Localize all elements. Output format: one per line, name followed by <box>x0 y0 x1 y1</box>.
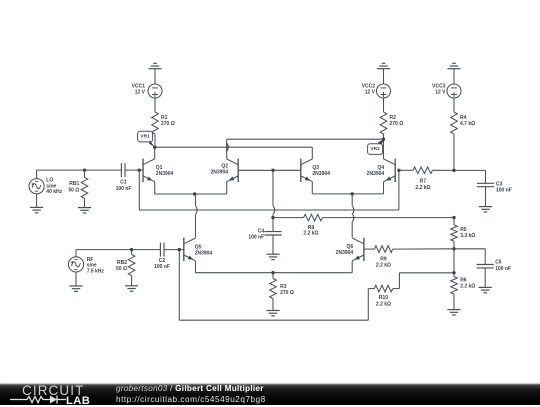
svg-text:R5: R5 <box>460 227 467 233</box>
svg-text:12 V: 12 V <box>365 90 376 96</box>
wire C3-ground <box>485 187 487 207</box>
footer title <box>116 384 264 393</box>
source RF <box>68 250 83 286</box>
label C4 100nF <box>248 228 264 240</box>
ground (C3) <box>479 207 492 212</box>
ground (above VCC1) <box>148 63 161 84</box>
node line B / C4 <box>271 216 274 219</box>
svg-text:VR1: VR1 <box>140 134 150 140</box>
svg-text:12 V: 12 V <box>135 90 146 96</box>
svg-text:C5: C5 <box>495 260 502 266</box>
svg-text:100 nF: 100 nF <box>496 188 512 194</box>
wire line B right <box>322 217 454 219</box>
svg-text:100 nF: 100 nF <box>116 186 132 192</box>
svg-text:270 Ω: 270 Ω <box>390 121 404 127</box>
wire VR1 rail (Q1-Q3 collectors) <box>155 146 313 148</box>
capacitor C5 <box>477 265 494 268</box>
label Q1 <box>156 165 174 177</box>
wire LO top rail <box>37 169 122 171</box>
wire VCC2-R2 <box>383 98 385 112</box>
wire C5-ground <box>484 268 486 288</box>
label C5 100nF <box>495 260 511 272</box>
node Q4 base junction <box>397 169 400 172</box>
svg-text:R2: R2 <box>390 115 397 121</box>
node Q1/Q2 emitters <box>193 192 196 195</box>
label C1 100nF <box>116 180 132 192</box>
wire C4-ground <box>272 235 274 254</box>
node Q5 base junction <box>178 248 181 251</box>
ground (R3) <box>266 311 279 316</box>
svg-text:C3: C3 <box>496 181 503 187</box>
wire base-C4 riser <box>273 170 275 231</box>
label R5 3.3k <box>460 227 475 239</box>
label R2 270 <box>390 115 404 127</box>
svg-text:2N3904: 2N3904 <box>156 171 174 177</box>
node Q1 base junction <box>138 168 141 171</box>
node R5 top <box>452 216 455 219</box>
svg-text:50 Ω: 50 Ω <box>116 266 127 272</box>
CircuitLab logo <box>22 383 84 398</box>
label Q2 <box>210 164 228 176</box>
probe flag VR1 <box>138 131 155 147</box>
wire R10-node <box>393 273 454 289</box>
wire node-C3 <box>454 170 486 183</box>
wire line A (Q1/Q4 bases) <box>139 170 399 210</box>
capacitor C4 <box>264 232 281 235</box>
svg-text:2N3904: 2N3904 <box>312 171 330 177</box>
capacitor C3 <box>477 183 494 186</box>
probe flag VR2 <box>368 139 385 155</box>
svg-text:100 nF: 100 nF <box>154 264 170 270</box>
resistor R10 <box>374 285 392 292</box>
wire R2-node VR2 <box>383 134 385 139</box>
logo resistor squiggle <box>8 394 78 406</box>
wire line B left <box>273 217 304 219</box>
node RB1 top <box>83 168 86 171</box>
transistor Q3 <box>301 147 313 194</box>
svg-text:50 Ω: 50 Ω <box>68 187 79 193</box>
svg-text:R1: R1 <box>161 115 168 121</box>
footer url <box>116 395 266 404</box>
svg-text:2N3904: 2N3904 <box>210 170 228 176</box>
svg-text:VCC3: VCC3 <box>432 84 446 90</box>
svg-text:Q5: Q5 <box>195 245 202 251</box>
transistor Q4 <box>384 139 396 194</box>
resistor R9 <box>364 246 454 253</box>
ground (RB2) <box>125 286 138 291</box>
svg-text:12 V: 12 V <box>435 90 446 96</box>
svg-text:2.2 kΩ: 2.2 kΩ <box>376 302 391 308</box>
resistor R3 <box>270 273 277 311</box>
svg-text:C4: C4 <box>258 228 265 234</box>
wire C2-Q5 base <box>164 249 184 251</box>
node R7/R4/C3 <box>452 169 455 172</box>
label Q4 <box>367 165 385 177</box>
svg-text:2N3904: 2N3904 <box>367 171 385 177</box>
label R9 2.2k <box>376 256 391 268</box>
label C2 100nF <box>154 258 170 270</box>
transistor Q1 <box>143 147 155 194</box>
wire VCC3-R4 <box>453 98 455 112</box>
svg-text:100 nF: 100 nF <box>248 234 264 240</box>
label LO sine 40kHz <box>46 178 62 195</box>
transistor Q6 <box>352 194 364 273</box>
svg-text:2N3904: 2N3904 <box>195 251 213 257</box>
svg-text:2.2 kΩ: 2.2 kΩ <box>460 284 475 290</box>
svg-text:R4: R4 <box>460 115 467 121</box>
label RB2 50 <box>116 260 127 272</box>
capacitor C2 <box>160 243 164 257</box>
svg-text:C2: C2 <box>159 258 166 264</box>
ground (RB1) <box>78 208 91 213</box>
label RF sine 7.5kHz <box>87 257 105 274</box>
label RB1 50 <box>68 181 79 193</box>
label R4 4.7k <box>460 115 475 127</box>
footer bar <box>0 384 540 405</box>
svg-text:4.7 kΩ: 4.7 kΩ <box>460 121 475 127</box>
wire Q1-Q2 emitters <box>155 193 227 195</box>
node Q3/Q4 emitters <box>351 192 354 195</box>
node Q2/Q3 bases <box>271 169 274 172</box>
voltage source VCC1 <box>148 84 162 98</box>
svg-text:3.3 kΩ: 3.3 kΩ <box>460 233 475 239</box>
wire RF rail <box>76 249 160 251</box>
node R5 bottom <box>452 247 455 250</box>
capacitor C1 <box>121 163 125 177</box>
transistor Q2 <box>227 139 239 194</box>
ground (C4) <box>266 254 279 259</box>
svg-text:100 nF: 100 nF <box>495 266 511 272</box>
svg-text:R9: R9 <box>380 256 387 262</box>
svg-text:40 kHz: 40 kHz <box>46 189 62 195</box>
node VR2 <box>382 138 385 141</box>
voltage source VCC2 <box>377 84 391 98</box>
label R1 270 <box>161 115 175 127</box>
svg-text:R10: R10 <box>379 295 388 301</box>
source LO <box>29 170 44 207</box>
ground (C5) <box>479 287 492 292</box>
wire node-C5 <box>454 249 485 265</box>
node R3 top <box>271 271 274 274</box>
label R8 2.2k <box>303 225 318 237</box>
svg-text:2.2 kΩ: 2.2 kΩ <box>303 231 318 237</box>
wire Q2-Q3 bases <box>238 169 301 171</box>
svg-text:VCC1: VCC1 <box>132 84 146 90</box>
label R7 2.2k <box>415 179 430 191</box>
voltage source VCC3 <box>447 84 461 98</box>
label C3 100nF <box>496 181 512 193</box>
node RB2 top <box>130 248 133 251</box>
ground (RF) <box>69 286 82 291</box>
svg-text:R3: R3 <box>280 284 287 290</box>
wire VCC1-R1 <box>154 98 156 112</box>
svg-text:270 Ω: 270 Ω <box>161 121 175 127</box>
wire Q3-Q4 emitters <box>312 193 383 195</box>
svg-text:VCC2: VCC2 <box>362 84 376 90</box>
label VCC1 12V <box>132 84 146 96</box>
wire R1-node VR1 <box>154 134 156 147</box>
resistor RB1 <box>81 170 88 207</box>
label R6 2.2k <box>460 278 475 290</box>
label VCC2 12V <box>362 84 376 96</box>
resistor R8 <box>304 214 323 221</box>
svg-text:7.5 kHz: 7.5 kHz <box>87 268 105 274</box>
node R10/R6 <box>452 271 455 274</box>
resistor R1 <box>152 112 159 134</box>
label VCC3 12V <box>432 84 446 96</box>
label R10 2.2k <box>376 295 391 308</box>
svg-text:2.2 kΩ: 2.2 kΩ <box>376 263 391 269</box>
svg-text:C1: C1 <box>120 180 127 186</box>
resistor R2 <box>380 112 387 134</box>
svg-text:2.2 kΩ: 2.2 kΩ <box>415 185 430 191</box>
wire VR2 rail (Q2-Q4 collectors) <box>227 138 384 140</box>
label Q5 <box>195 245 213 257</box>
ground (R6) <box>447 310 460 315</box>
wire Q5/Q6 emitters <box>196 272 353 274</box>
label R3 270 <box>280 284 294 296</box>
ground (LO) <box>30 207 43 212</box>
resistor R6 <box>451 273 458 310</box>
resistor R4 <box>451 112 458 134</box>
transistor Q5 <box>184 194 197 273</box>
wire Q5 base-R10 <box>179 250 374 321</box>
svg-text:270 Ω: 270 Ω <box>280 290 294 296</box>
ground (above VCC2) <box>377 63 390 84</box>
svg-text:RB2: RB2 <box>117 260 127 266</box>
svg-text:2N3904: 2N3904 <box>336 250 354 256</box>
ground (above VCC3) <box>447 63 460 84</box>
label Q6 <box>336 244 354 256</box>
resistor R7 <box>399 167 454 174</box>
svg-text:RB1: RB1 <box>69 181 79 187</box>
wire R5-R6 column <box>453 249 455 273</box>
svg-text:VR2: VR2 <box>370 146 380 152</box>
wire C1-Q1 base <box>125 169 143 171</box>
svg-text:R7: R7 <box>420 179 427 185</box>
label Q3 <box>312 165 330 177</box>
resistor RB2 <box>128 250 135 286</box>
svg-text:R6: R6 <box>460 278 467 284</box>
resistor R5 <box>451 218 458 249</box>
node VR1 <box>153 146 156 149</box>
wire R4-node R7 <box>453 134 455 170</box>
